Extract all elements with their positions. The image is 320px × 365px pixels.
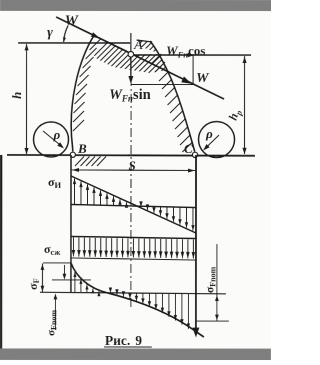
sigma_F dimension line: [41, 263, 43, 291]
svg-text:Рис.9: Рис.9: [105, 333, 142, 348]
right nominal bottom tick: [196, 320, 229, 322]
node C circle: [192, 152, 197, 157]
svg-text:S: S: [129, 158, 136, 173]
svg-text:h: h: [9, 92, 24, 99]
sigma_F top tick: [43, 262, 71, 264]
svg-text:C: C: [184, 141, 193, 156]
sigma_I compression arrows (right half): [140, 205, 142, 208]
down arrow to nominal level: [63, 265, 65, 278]
top-left horizontal dimension line: [18, 42, 130, 44]
root hatching right of B: [75, 156, 84, 166]
sigma_F zero line: [40, 292, 226, 294]
tooth right flank: [150, 41, 195, 152]
left sigma_Fnom arrow: [54, 294, 56, 330]
root base line: [7, 154, 255, 157]
compression arrows on curve (right): [109, 292, 111, 294]
force line of action W: [56, 17, 224, 99]
bottom gray bar: [0, 348, 271, 360]
left extension vertical below B: [70, 155, 72, 293]
sigma_szh uniform arrows: [72, 238, 74, 257]
dimension line h: [26, 44, 28, 154]
fat arrowhead of W vector: [181, 76, 191, 83]
arrowhead of applied force W: [91, 32, 100, 38]
tooth centerline (dash-dot): [130, 60, 132, 310]
sigma_I diagonal: [71, 176, 196, 233]
right extension vertical below C: [195, 155, 197, 334]
left flank hatching: [90, 39, 101, 50]
right fillet radius circle rho: [199, 122, 235, 158]
tooth tip edge: [137, 40, 153, 42]
S dimension line: [71, 169, 196, 172]
combined stress curve: [71, 263, 204, 337]
sigma_szh top line: [71, 236, 196, 238]
left rho radius arrow: [43, 131, 63, 147]
svg-text:ρ: ρ: [205, 126, 213, 141]
tooth left flank: [71, 35, 94, 151]
fat arrowhead at bottom of right vertical: [192, 328, 199, 338]
node B circle: [70, 152, 75, 157]
left fillet radius circle rho: [34, 122, 69, 157]
W_Fn sin component arrow: [130, 57, 132, 82]
sigma_szh bottom line: [71, 258, 196, 260]
W_Fn cos component arrowhead: [188, 53, 195, 57]
svg-text:W: W: [196, 71, 210, 86]
node A circle: [128, 51, 134, 57]
caption underline: [104, 346, 152, 348]
dimension line h_p: [244, 56, 246, 154]
vertical axis tick above A: [130, 33, 132, 51]
sigma_I tension arrows (left half): [73, 179, 75, 205]
gamma angle arc: [64, 25, 69, 42]
sigma_I zero line: [71, 204, 196, 207]
left page edge line: [0, 155, 2, 348]
svg-text:ρ: ρ: [53, 127, 61, 142]
svg-text:B: B: [77, 141, 87, 156]
svg-text:W: W: [65, 13, 80, 29]
top-right horizontal line through A (Wfn cos baseline): [131, 54, 251, 56]
top gray bar: [0, 0, 271, 11]
svg-text:γ: γ: [47, 25, 53, 40]
tension arrows on curve (left): [74, 272, 76, 292]
nominal tension level tick: [52, 279, 91, 281]
component rectangle bottom edge: [131, 83, 193, 85]
right rho radius arrow: [205, 135, 220, 149]
right sigma_Fnom dimension line: [216, 244, 218, 321]
component rectangle right edge: [192, 55, 194, 84]
right flank hatching: [151, 54, 161, 64]
svg-text:A: A: [133, 38, 143, 53]
